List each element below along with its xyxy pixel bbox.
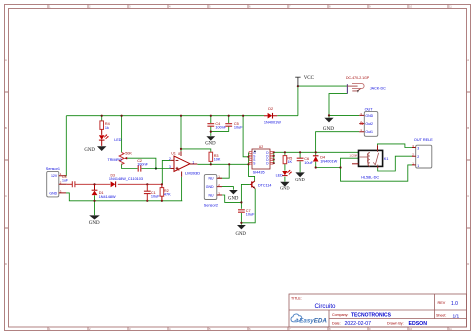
svg-text:GND: GND — [365, 114, 373, 118]
svg-text:EasyEDA: EasyEDA — [299, 317, 327, 324]
svg-text:JACK-DC: JACK-DC — [370, 86, 386, 90]
svg-text:LM393D: LM393D — [185, 171, 200, 176]
ground GND (C6) — [295, 172, 305, 182]
svg-text:GND: GND — [206, 185, 214, 189]
svg-text:C: C — [5, 194, 7, 198]
LED LED1 — [99, 135, 122, 146]
wire R5 column leads — [284, 152, 286, 181]
svg-text:EDSON: EDSON — [409, 321, 428, 327]
svg-text:OUT: OUT — [365, 108, 374, 112]
wire Sensor2 pin2 to GND — [222, 187, 233, 190]
wire jack return to GND — [329, 94, 347, 118]
svg-text:Out2: Out2 — [365, 122, 373, 126]
svg-text:A: A — [467, 58, 469, 62]
svg-text:10uF: 10uF — [246, 213, 255, 217]
resistor R4 — [100, 121, 110, 135]
svg-text:U2: U2 — [259, 145, 264, 149]
svg-text:GND: GND — [205, 142, 216, 147]
svg-text:REV: REV — [438, 301, 446, 305]
ground GND (C4 C5) — [205, 136, 216, 146]
capacitor C5 — [225, 122, 243, 130]
wire D4 leads — [315, 152, 317, 167]
wire left drop to Sensor1 pin1 — [64, 116, 66, 176]
wire Sensor2 pin1 branch — [218, 164, 229, 178]
junction U2 drain pin6 — [273, 159, 275, 161]
wire VCC top rail left part — [66, 115, 264, 117]
svg-text:1.0: 1.0 — [451, 301, 458, 307]
junction Sensor2 pin1 branch on output net — [228, 163, 230, 165]
capacitor C7 — [238, 209, 255, 217]
svg-text:Date:: Date: — [332, 321, 341, 325]
ground GND (R4 LED) — [84, 146, 106, 153]
svg-text:Circuito: Circuito — [315, 303, 337, 310]
svg-text:DTC114: DTC114 — [258, 183, 271, 187]
svg-text:1k: 1k — [105, 126, 109, 130]
svg-text:1N4001W: 1N4001W — [264, 121, 281, 125]
wire signal row D1 to D3 — [95, 183, 111, 185]
svg-text:LED: LED — [114, 138, 122, 142]
wire U1 pin8 VCC drop — [180, 116, 182, 152]
wire relay bottom return line to OUT RELE pin1 — [341, 165, 413, 181]
capacitor C2 — [137, 159, 148, 172]
svg-text:D: D — [467, 262, 469, 266]
jack J1 DC-470-2.1GP — [346, 76, 386, 93]
junction R5 on drain rail — [284, 151, 286, 153]
svg-text:TITLE:: TITLE: — [291, 297, 302, 301]
svg-text:1.COM: 1.COM — [350, 156, 357, 158]
svg-text:100nF: 100nF — [215, 126, 226, 130]
junction U1 pin8 drop on VCC rail — [180, 115, 182, 117]
svg-text:2: 2 — [417, 155, 419, 159]
wire U2 VCC drop — [243, 116, 248, 157]
svg-text:1N4148W: 1N4148W — [99, 195, 116, 199]
svg-text:10uF: 10uF — [304, 161, 313, 165]
wire U2 right pin tie — [273, 152, 275, 163]
ground GND (C7 Q1 emitter) — [236, 225, 247, 237]
wire relay bottom pin to OUT RELE pin2 — [378, 156, 412, 171]
svg-text:TRIMPO: TRIMPO — [108, 158, 122, 162]
svg-text:10: 10 — [409, 327, 412, 331]
junction VCC jack node — [297, 85, 299, 87]
wire GND row — [66, 193, 182, 201]
junction C5 on VCC rail — [228, 115, 230, 117]
junction D4 bottom node — [315, 166, 317, 168]
junction U2 drain pin8 — [273, 151, 275, 153]
svg-text:10uF: 10uF — [151, 195, 160, 199]
junction D1 top on signal net — [93, 183, 95, 185]
relay K1 HL58L-DC — [350, 145, 389, 179]
junction R2 bottom on ground net — [161, 200, 163, 202]
capacitor C6 — [297, 157, 314, 165]
junction U1 pin8 R3 spur — [180, 148, 182, 150]
resistor R2 — [160, 184, 171, 201]
junction dots — [93, 85, 341, 224]
svg-text:GND: GND — [228, 197, 239, 202]
svg-text:1N4148W_C110103: 1N4148W_C110103 — [109, 177, 143, 181]
svg-text:Company:: Company: — [332, 313, 348, 317]
capacitor C3 — [62, 175, 75, 187]
wire VCC symbol drop — [297, 86, 299, 116]
junction R2 top on signal net — [161, 183, 163, 185]
connector Sensor2 — [204, 175, 222, 208]
junction C4 on VCC rail — [210, 115, 212, 117]
junction C7 top node — [240, 201, 242, 203]
wire U2 left pin tie — [248, 153, 250, 165]
svg-text:3: 3 — [417, 147, 419, 151]
svg-text:GND: GND — [236, 232, 247, 237]
junction R4 top on VCC rail — [101, 115, 103, 117]
svg-text:GND: GND — [49, 192, 57, 196]
wire signal row D3 to R2 — [118, 183, 163, 185]
wire trimpot wiper to node — [127, 158, 156, 168]
diode D1 — [92, 184, 116, 199]
potentiometer TRIMPO 50K — [108, 152, 133, 165]
connector OUT RELE — [412, 138, 433, 168]
svg-text:12V: 12V — [51, 174, 58, 178]
junction C7 bottom node — [240, 222, 242, 224]
wire C7 column — [240, 202, 242, 222]
svg-text:3: 3 — [169, 165, 171, 169]
svg-text:SI4435: SI4435 — [253, 170, 265, 174]
connector Sensor1 — [46, 167, 67, 197]
connector OUT — [359, 108, 378, 137]
transistor Q1 DTC114 — [250, 181, 272, 189]
svg-text:10: 10 — [409, 5, 412, 9]
ground GND (LED2) — [280, 182, 290, 191]
wire R4 column top — [101, 116, 103, 121]
wire trimpot column from rail — [121, 116, 123, 153]
svg-text:50K: 50K — [125, 152, 132, 156]
svg-text:S: S — [253, 162, 255, 166]
svg-text:100nF: 100nF — [137, 163, 148, 167]
TITLE BLOCK — [289, 294, 467, 327]
ground GND (Sensor2 pin2) — [228, 190, 239, 202]
wire Sensor2 pin3 to C7 node — [222, 195, 241, 202]
svg-text:GND: GND — [323, 126, 334, 132]
svg-text:D: D — [5, 262, 7, 266]
diode D4 — [313, 156, 338, 164]
wire C4 top lead — [210, 116, 212, 123]
wire Q1 emitter to GND — [241, 189, 255, 225]
svg-text:U1: U1 — [171, 152, 176, 156]
junction C4 C5 ground join — [210, 131, 212, 133]
wire C4 C5 gnd join — [211, 126, 229, 135]
svg-text:1uF: 1uF — [62, 179, 68, 183]
wire C2 row to op-amp pin3 — [141, 168, 170, 170]
svg-text:HL58L-DC: HL58L-DC — [361, 176, 379, 180]
svg-text:GND: GND — [84, 148, 95, 153]
svg-text:Sensor1: Sensor1 — [46, 167, 60, 171]
svg-text:1K: 1K — [287, 160, 292, 164]
junction U2 drain pin5 — [273, 162, 275, 164]
wire C6 leads — [299, 152, 301, 172]
svg-text:2022-02-07: 2022-02-07 — [345, 321, 372, 327]
wire OUT pin3 GND — [329, 114, 359, 116]
VCC symbol — [295, 76, 314, 86]
svg-text:NU: NU — [208, 193, 214, 197]
svg-text:OUT RELE: OUT RELE — [414, 138, 433, 142]
junction TRIMPO column on VCC rail — [121, 115, 123, 117]
junction R3 bottom on output net — [210, 163, 212, 165]
diode D2 — [264, 107, 281, 124]
svg-text:TECNOTRONICS: TECNOTRONICS — [351, 313, 392, 319]
svg-text:B: B — [5, 126, 7, 130]
diode D3 — [109, 173, 143, 187]
svg-text:1N4001W: 1N4001W — [320, 159, 337, 163]
wire VCC top rail right of D2 — [277, 115, 298, 117]
resistor R5 — [283, 156, 292, 165]
svg-text:NU: NU — [208, 177, 214, 181]
svg-text:K1: K1 — [384, 157, 389, 161]
svg-text:1: 1 — [192, 160, 194, 164]
junction OUT pin3 GND drop — [328, 114, 330, 116]
svg-text:Sheet:: Sheet: — [436, 314, 446, 318]
svg-text:Sensor2: Sensor2 — [204, 203, 218, 207]
op-amp U1 LM393D — [169, 151, 200, 177]
junction D1 bottom on ground net — [93, 200, 95, 202]
junction U2 source node — [247, 156, 249, 158]
svg-text:2: 2 — [169, 157, 171, 161]
ground GND (jack return) — [323, 118, 334, 132]
ground GND (D1 sensor input) — [89, 215, 100, 226]
svg-text:1/1: 1/1 — [453, 313, 460, 319]
wire U1 pin4 to GND row — [181, 177, 183, 201]
wire op-amp output row — [197, 163, 248, 165]
svg-text:A: A — [5, 58, 7, 62]
resistor R3 — [209, 152, 221, 161]
svg-text:D2: D2 — [268, 107, 273, 111]
wire C5 top lead — [228, 116, 230, 123]
wire VCC spur to R3 — [181, 149, 211, 152]
wire D1 bottom lead — [94, 195, 96, 215]
svg-text:B: B — [467, 126, 469, 130]
capacitor C1 — [144, 184, 160, 201]
wire VCC to jack — [298, 85, 348, 87]
LED LED2 — [276, 170, 292, 177]
svg-text:Out1: Out1 — [365, 130, 373, 134]
wire Out1 to switched rail — [316, 132, 360, 153]
wire op-amp pin2 link to signal row — [162, 160, 170, 184]
svg-text:GND: GND — [89, 221, 100, 226]
wire R3 bottom lead join — [210, 161, 212, 164]
svg-text:8: 8 — [178, 152, 180, 156]
svg-text:1: 1 — [417, 164, 419, 168]
wire switched drain rail — [274, 151, 359, 153]
svg-text:Drawn By:: Drawn By: — [387, 321, 404, 325]
junction C1 bottom on ground net — [146, 200, 148, 202]
capacitor C4 — [207, 122, 226, 130]
svg-text:LED: LED — [276, 174, 284, 178]
svg-text:VCC: VCC — [304, 76, 315, 81]
junction relay coil return node — [339, 166, 341, 168]
wire Q1 base — [241, 184, 250, 202]
svg-text:4: 4 — [178, 168, 180, 172]
junction C6 on drain rail — [299, 151, 301, 153]
svg-text:GND: GND — [280, 186, 290, 191]
wire signal row C3 to D1 node — [75, 183, 95, 185]
svg-text:GND: GND — [295, 177, 305, 182]
svg-text:10K: 10K — [214, 158, 221, 162]
svg-text:10uF: 10uF — [234, 126, 243, 130]
wire trimpot bottom to C2 row — [122, 164, 138, 169]
junction U2 supply drop on VCC rail — [242, 115, 244, 117]
wire D4 bottom net to relay coil — [316, 158, 359, 167]
svg-text:47K: 47K — [164, 193, 171, 197]
svg-text:DC-470-2.1GP: DC-470-2.1GP — [346, 76, 370, 80]
wire U2 gate to Q1 collector — [249, 164, 255, 181]
junction U2 drain pin7 — [273, 155, 275, 157]
junction D4 Out1 on drain rail — [315, 151, 317, 153]
junction wiper C2 node — [155, 167, 157, 169]
junction U2 gate node — [247, 163, 249, 165]
MOSFET U2 SI4435 — [249, 145, 273, 174]
wire relay top pin to OUT RELE pin3 — [378, 144, 413, 148]
svg-text:C: C — [467, 194, 469, 198]
junction C1 top on signal net — [146, 183, 148, 185]
